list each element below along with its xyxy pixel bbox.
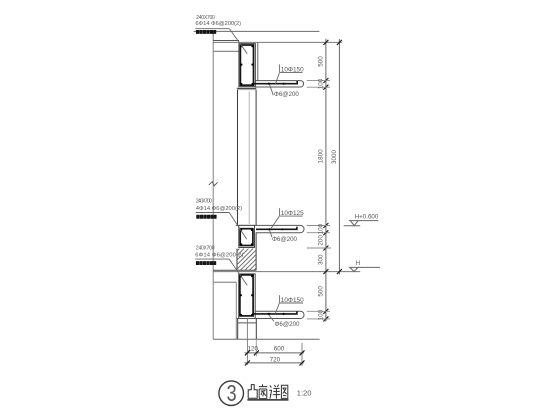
leader to beam B1 bbox=[229, 29, 247, 54]
outer vertical dimension line bbox=[338, 39, 340, 275]
floor level line H bbox=[213, 271, 360, 273]
svg-text:300: 300 bbox=[318, 254, 325, 265]
bottom slab rebar dots bbox=[268, 313, 285, 315]
mid slab rebar dots bbox=[268, 228, 283, 230]
label L2 bold note bbox=[196, 215, 216, 219]
dimension extension 120 left bbox=[246, 319, 248, 365]
leader to beam B2 bbox=[229, 213, 247, 240]
ceiling line upper bbox=[213, 40, 239, 42]
level symbol H+0.600 bbox=[344, 213, 379, 225]
roof slab soffit line bbox=[213, 50, 239, 52]
svg-text:1:20: 1:20 bbox=[297, 388, 312, 397]
dimension extension 120 right bbox=[255, 339, 257, 356]
title char TU (drawing) bbox=[281, 385, 287, 398]
svg-text:240X700: 240X700 bbox=[196, 246, 215, 252]
label L1 underline bbox=[195, 28, 229, 30]
svg-text:H: H bbox=[356, 260, 360, 267]
svg-text:100: 100 bbox=[318, 309, 325, 320]
label L3 underline bbox=[195, 258, 229, 260]
beam B1 stirrup bbox=[240, 45, 253, 85]
title char CHUANG (window) bbox=[259, 384, 268, 398]
svg-text:100: 100 bbox=[318, 78, 325, 89]
window head finish line bbox=[237, 89, 256, 91]
svg-text:3: 3 bbox=[227, 381, 237, 407]
label 10phi150 bottom bbox=[275, 295, 304, 313]
svg-text:240X700: 240X700 bbox=[196, 198, 212, 204]
svg-text:Φ6@200: Φ6@200 bbox=[272, 236, 298, 243]
bay face line below mid slab bbox=[255, 233, 257, 271]
sill line at hatch bottom bbox=[213, 269, 256, 271]
svg-text:200: 200 bbox=[318, 235, 325, 246]
label L1 bold note bbox=[196, 30, 216, 34]
beam B2 outer section bbox=[239, 225, 255, 247]
extension lines to dim chain bbox=[307, 81, 331, 319]
upper outer wall face bbox=[257, 42, 259, 80]
label 10phi125 mid bbox=[271, 208, 304, 229]
title char XIANG (detail) bbox=[269, 385, 280, 399]
apron left line below sill bbox=[237, 319, 239, 340]
beam B1 rebar dots bbox=[240, 45, 253, 85]
wall face line bbox=[212, 31, 214, 339]
svg-text:3000: 3000 bbox=[331, 150, 338, 165]
window glass line bbox=[248, 92, 250, 225]
bottom dimension line 720 bbox=[245, 362, 304, 364]
break symbol on wall line bbox=[209, 182, 218, 186]
beam B2 stirrup bbox=[240, 229, 253, 246]
svg-text:100: 100 bbox=[318, 223, 325, 234]
level symbol H bbox=[349, 260, 380, 272]
masonry hatch left edge bbox=[236, 249, 238, 271]
beam B2 rebar dots bbox=[240, 229, 253, 246]
roof slab top / dimension extension line bbox=[213, 41, 342, 43]
title underline bbox=[247, 399, 288, 401]
label L2 underline bbox=[196, 212, 229, 214]
dimension ticks outer chain bbox=[337, 40, 342, 274]
floor soffit line bbox=[213, 281, 236, 283]
svg-text:6Φ14 Φ6@200(2): 6Φ14 Φ6@200(2) bbox=[195, 21, 241, 27]
bottom slab outline bbox=[237, 311, 304, 318]
svg-text:240X700: 240X700 bbox=[196, 15, 215, 21]
leader to masonry and sill beam bbox=[229, 259, 247, 285]
svg-text:600: 600 bbox=[274, 346, 285, 353]
mid slab outline bbox=[236, 225, 304, 232]
svg-text:6Φ14 Φ6@200(2): 6Φ14 Φ6@200(2) bbox=[195, 253, 243, 259]
apron finish line bbox=[238, 322, 257, 324]
svg-text:Φ6@200: Φ6@200 bbox=[274, 91, 300, 98]
window frame line left bbox=[237, 90, 239, 226]
dimension extension 600 right bbox=[301, 343, 303, 366]
svg-text:4Φ14 Φ6@200(2): 4Φ14 Φ6@200(2) bbox=[196, 206, 242, 212]
sill beam B3 rebar dots bbox=[240, 275, 254, 316]
svg-text:500: 500 bbox=[318, 286, 325, 297]
label phi6at200 top bbox=[270, 85, 300, 98]
title char TU (protrude) bbox=[248, 385, 257, 399]
dimension ticks inner chain bbox=[323, 40, 328, 322]
bottom cut line bbox=[213, 338, 319, 340]
inner wall face below floor bbox=[235, 282, 237, 339]
bottom slab rebar bbox=[253, 311, 297, 314]
sill beam B3 outer section bbox=[239, 274, 256, 319]
roof top finish line bbox=[194, 30, 320, 32]
bottom dimension line 600/120 bbox=[245, 352, 304, 354]
top slab outline bbox=[255, 81, 303, 87]
svg-text:720: 720 bbox=[270, 357, 281, 364]
label 10phi150 top bbox=[275, 64, 304, 84]
window head line bbox=[237, 87, 256, 89]
sill beam B3 stirrup bbox=[240, 275, 253, 316]
mid slab rebar bbox=[256, 227, 297, 230]
label phi6at200 bottom bbox=[269, 315, 300, 328]
bottom dim ticks bbox=[245, 350, 305, 365]
window frame line right bbox=[255, 90, 257, 226]
beam B1 outer section 240x700 bbox=[239, 44, 256, 87]
svg-text:120: 120 bbox=[248, 345, 259, 352]
label L3 bold note bbox=[196, 261, 216, 265]
masonry hatch lines bbox=[237, 249, 256, 271]
inner vertical dimension line bbox=[325, 39, 327, 322]
detail number circle 3 bbox=[219, 381, 244, 406]
apron right line below sill bbox=[255, 319, 257, 340]
svg-text:Φ6@200: Φ6@200 bbox=[275, 321, 301, 328]
svg-text:1800: 1800 bbox=[318, 149, 325, 164]
svg-text:500: 500 bbox=[318, 56, 325, 67]
top slab rebar bbox=[253, 81, 297, 84]
top slab rebar dots bbox=[268, 83, 285, 85]
label phi6at200 mid bbox=[270, 230, 298, 243]
svg-text:H+0.600: H+0.600 bbox=[355, 213, 379, 220]
